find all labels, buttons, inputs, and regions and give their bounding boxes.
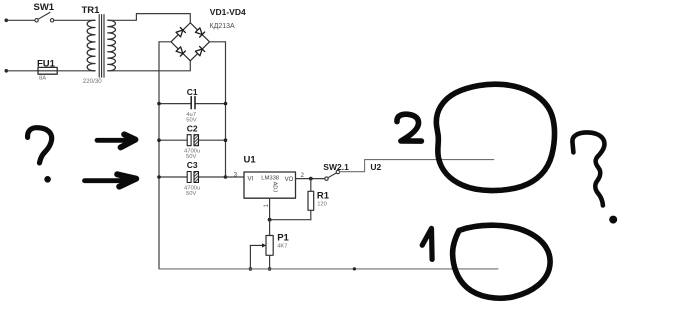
annotation question mark left [28,128,52,163]
node dot on rail [353,267,356,270]
annotation circle around output 2 [436,84,554,190]
node junction VO/R1 [309,177,313,181]
annotation question mark right [572,132,604,205]
svg-text:U2: U2 [370,162,381,172]
bridge rectifier VD1-VD4 [171,23,210,61]
svg-text:50V: 50V [186,191,196,197]
diode VD (bottom-left arm) [176,46,186,56]
wire to output 2 [340,160,494,172]
annotation arrow top [97,138,124,143]
diode VD (bottom-right arm) [195,46,205,56]
svg-text:SW2.1: SW2.1 [323,162,349,172]
wire U1 ADJ pin [269,198,271,220]
svg-text:C3: C3 [187,160,198,170]
wire secondary top to bridge [108,14,191,23]
wire wiper down [249,245,251,269]
wire C3 node to U1 input [226,176,245,178]
svg-text:3: 3 [234,173,238,179]
svg-text:ADJ: ADJ [271,182,277,192]
annotation digit 2 [397,114,421,141]
wire secondary bottom to bridge [108,61,191,71]
node input terminal bottom [5,69,9,73]
svg-text:P1: P1 [277,232,289,243]
transformer core [98,15,100,78]
node input terminal top [5,19,9,23]
fuse FU1 [38,67,57,74]
wiper arrow [250,244,262,246]
svg-text:C1: C1 [187,87,198,97]
svg-text:VO: VO [285,177,294,183]
svg-text:FU1: FU1 [37,58,56,69]
node dots C2 [157,138,161,142]
svg-text:220/30: 220/30 [83,78,102,85]
svg-text:C2: C2 [187,123,198,133]
svg-text:TR1: TR1 [82,5,101,16]
node dots C3 [157,175,161,179]
wire bridge plus to right bus [210,41,226,43]
wire [54,19,95,21]
wire R1 bottom to ADJ [270,219,311,221]
capacitor C1 [159,103,191,105]
diode VD (top-left arm) [176,27,186,37]
svg-text:VI: VI [248,177,254,183]
transformer primary winding [87,20,95,71]
svg-text:120: 120 [317,201,327,207]
capacitor C3 [159,176,187,178]
wire [6,19,35,21]
annotation arrow bottom [85,178,126,183]
wire U1 output [296,178,326,180]
svg-text:4K7: 4K7 [277,244,287,250]
annotation circle around output 1 [453,225,551,298]
node dots C1 [157,102,161,106]
resistor R1 [310,179,312,192]
node ADJ junction [268,218,272,222]
capacitor C2 [159,139,187,141]
wire [6,70,38,72]
wire ADJ to P1 [269,220,271,236]
svg-text:КД213А: КД213А [210,23,235,30]
diode VD (top-right arm) [195,27,205,37]
wire bottom rail to output 1 [159,268,498,270]
svg-text:8A: 8A [39,75,46,81]
op-amp regulator U1 LM338 [244,172,296,198]
switch SW1 [35,12,54,22]
annotation digit 1 [422,228,432,259]
switch SW2.1 [325,170,340,180]
svg-text:U1: U1 [244,154,257,165]
wire [57,70,95,72]
wire right bus [225,42,227,177]
svg-text:VD1-VD4: VD1-VD4 [210,7,246,17]
transformer secondary winding [108,20,116,71]
potentiometer P1 [266,236,273,256]
svg-text:R1: R1 [317,190,330,201]
wire left bus [158,42,160,269]
wire bridge minus to left bus [159,41,171,43]
wire P1 bottom [269,255,271,269]
svg-text:SW1: SW1 [34,2,55,13]
